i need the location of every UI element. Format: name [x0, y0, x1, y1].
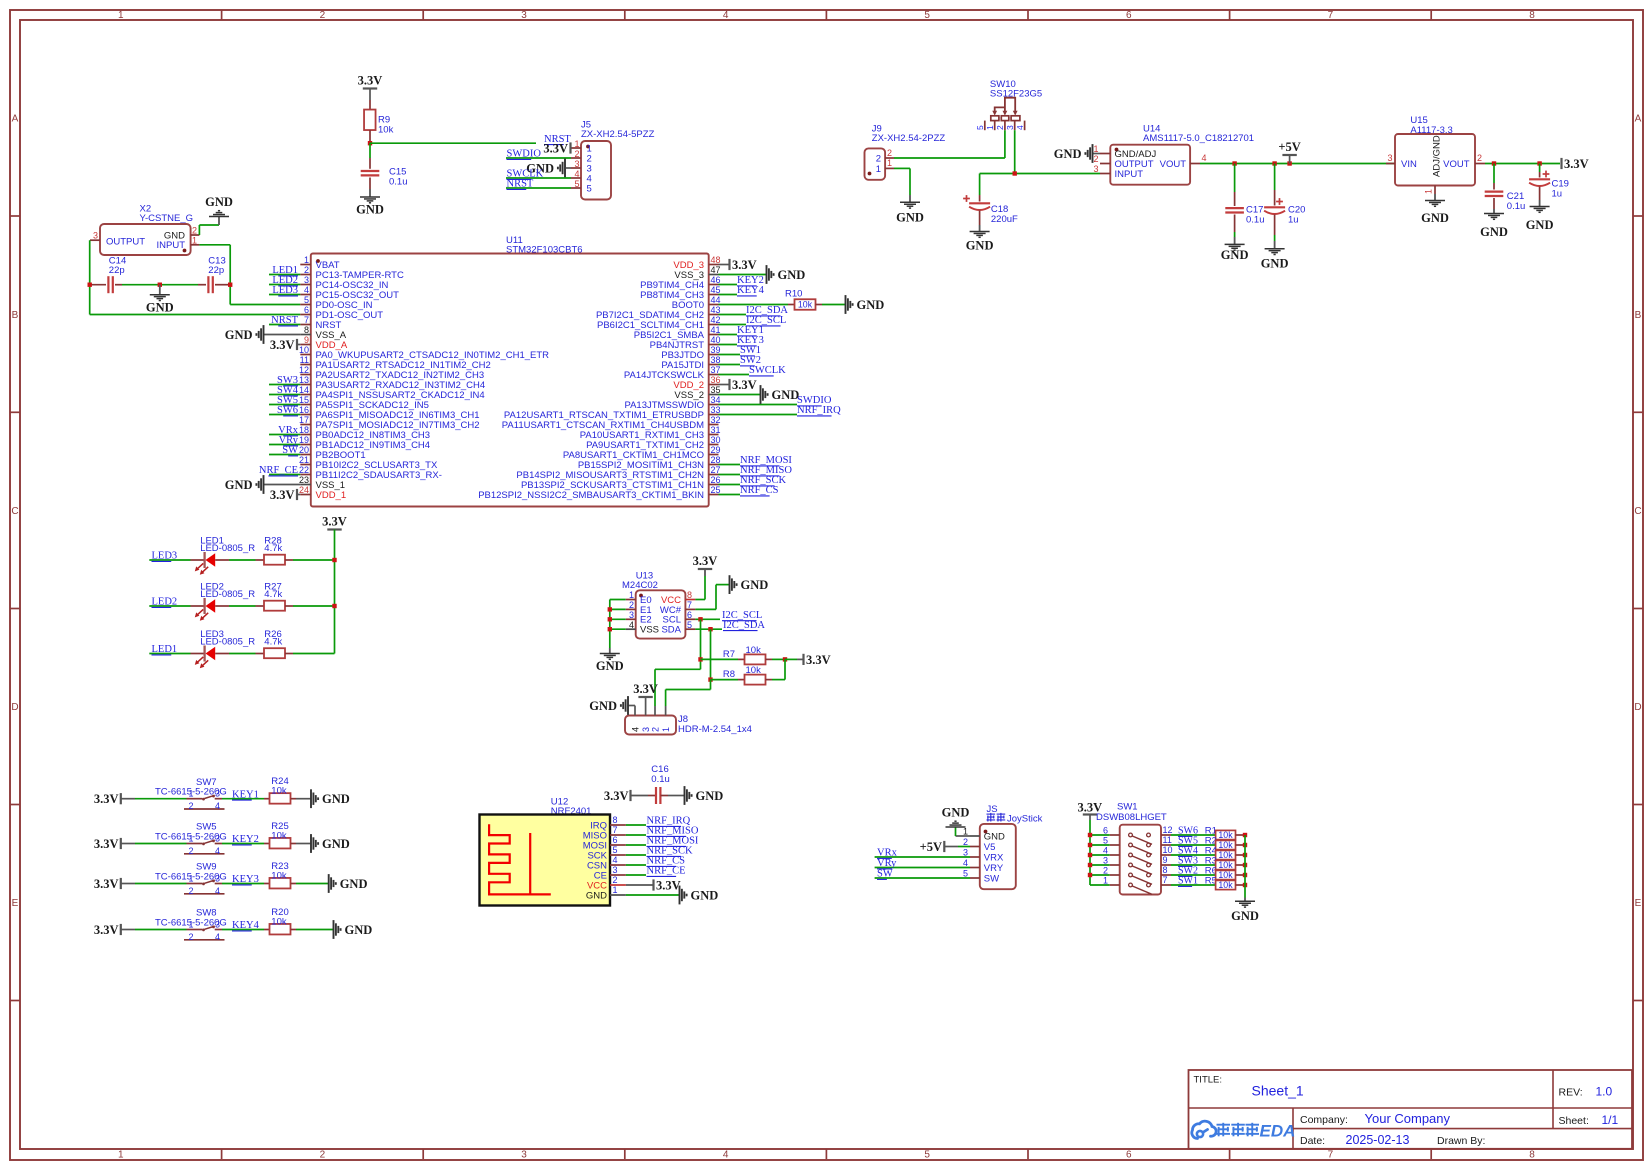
svg-text:GND: GND [356, 203, 384, 217]
svg-text:VRx: VRx [877, 848, 898, 859]
svg-text:4: 4 [629, 620, 634, 630]
svg-text:2025-02-13: 2025-02-13 [1346, 1133, 1410, 1147]
svg-text:PB12SPI2_NSSI2C2_SMBAUSART3_CK: PB12SPI2_NSSI2C2_SMBAUSART3_CKTIM1_BKIN [478, 490, 704, 501]
svg-text:JoyStick: JoyStick [1007, 814, 1043, 825]
svg-text:3: 3 [304, 275, 309, 285]
svg-text:A: A [1635, 114, 1642, 125]
svg-text:Your Company: Your Company [1365, 1111, 1451, 1126]
svg-text:1: 1 [985, 125, 995, 130]
svg-text:3: 3 [1005, 125, 1015, 130]
svg-text:4: 4 [613, 855, 618, 865]
svg-text:10k: 10k [746, 665, 762, 676]
svg-text:5: 5 [587, 183, 592, 194]
svg-text:R7: R7 [723, 649, 735, 660]
svg-text:4: 4 [723, 1150, 729, 1161]
svg-text:5: 5 [304, 295, 309, 305]
svg-text:SDA: SDA [661, 625, 681, 636]
svg-text:SW: SW [282, 445, 298, 456]
svg-text:3.3V: 3.3V [604, 789, 629, 803]
svg-text:19: 19 [299, 435, 309, 445]
svg-text:1: 1 [118, 1150, 124, 1161]
svg-text:GND: GND [778, 268, 806, 282]
svg-text:GND: GND [942, 806, 970, 820]
svg-text:22p: 22p [208, 265, 224, 276]
svg-text:Drawn By:: Drawn By: [1437, 1135, 1485, 1147]
svg-text:1.0: 1.0 [1596, 1085, 1613, 1099]
svg-text:SW: SW [877, 869, 893, 880]
svg-text:Y-CSTNE_G: Y-CSTNE_G [140, 213, 194, 224]
svg-text:VOUT: VOUT [1160, 159, 1187, 170]
svg-text:GND: GND [1221, 248, 1249, 262]
svg-text:10k: 10k [1218, 860, 1233, 870]
svg-text:5: 5 [613, 845, 618, 855]
svg-text:1u: 1u [1552, 189, 1563, 200]
svg-text:GND: GND [1054, 147, 1082, 161]
svg-text:2: 2 [995, 125, 1005, 130]
svg-text:ADJ/GND: ADJ/GND [1432, 135, 1443, 177]
svg-text:GND: GND [1526, 218, 1554, 232]
svg-text:1: 1 [876, 164, 881, 175]
svg-text:11: 11 [1163, 835, 1172, 845]
svg-text:10k: 10k [798, 300, 813, 310]
svg-text:3.3V: 3.3V [633, 682, 658, 696]
svg-text:10k: 10k [378, 125, 394, 136]
svg-text:GND: GND [596, 659, 624, 673]
svg-text:10k: 10k [1218, 870, 1233, 880]
svg-text:2: 2 [629, 600, 634, 610]
svg-text:JS: JS [987, 804, 998, 815]
svg-text:0.1u: 0.1u [389, 177, 408, 188]
svg-text:3: 3 [613, 865, 618, 875]
svg-text:4: 4 [574, 169, 579, 179]
svg-text:6: 6 [1103, 826, 1108, 836]
svg-text:3.3V: 3.3V [94, 923, 119, 937]
svg-text:3: 3 [521, 1150, 527, 1161]
svg-text:3: 3 [629, 610, 634, 620]
svg-text:3: 3 [574, 159, 579, 169]
svg-text:GND: GND [966, 239, 994, 253]
svg-text:7: 7 [613, 825, 618, 835]
svg-text:9: 9 [1163, 855, 1168, 865]
svg-text:30: 30 [711, 435, 721, 445]
svg-text:10: 10 [1163, 845, 1173, 855]
svg-text:8: 8 [1529, 1150, 1535, 1161]
svg-text:15: 15 [299, 395, 309, 405]
svg-text:3.3V: 3.3V [94, 837, 119, 851]
svg-text:14: 14 [299, 385, 309, 395]
svg-text:NRF_CE: NRF_CE [647, 866, 686, 877]
svg-text:4: 4 [963, 858, 968, 868]
svg-text:SW1: SW1 [1178, 876, 1198, 887]
svg-text:10k: 10k [271, 831, 287, 842]
svg-text:1: 1 [574, 139, 579, 149]
svg-text:2: 2 [574, 149, 579, 159]
svg-text:KEY1: KEY1 [232, 789, 259, 800]
svg-text:+5V: +5V [1278, 140, 1300, 154]
svg-text:4: 4 [304, 285, 309, 295]
svg-text:SW1: SW1 [1117, 802, 1138, 813]
svg-text:A: A [12, 114, 19, 125]
svg-text:4: 4 [215, 886, 220, 896]
svg-text:GND: GND [586, 890, 607, 901]
svg-text:23: 23 [299, 475, 309, 485]
svg-text:NRF_CE: NRF_CE [259, 465, 298, 476]
svg-text:1: 1 [1424, 189, 1434, 194]
svg-text:DSWB08LHGET: DSWB08LHGET [1096, 812, 1167, 823]
svg-text:SWDIO: SWDIO [507, 149, 542, 160]
svg-text:D: D [1634, 702, 1641, 713]
svg-text:24: 24 [299, 485, 309, 495]
svg-text:GND: GND [345, 923, 373, 937]
svg-text:NRF_CS: NRF_CS [740, 485, 779, 496]
svg-text:KEY4: KEY4 [232, 920, 260, 931]
svg-text:3.3V: 3.3V [732, 258, 757, 272]
svg-text:2: 2 [887, 148, 892, 158]
svg-text:GND: GND [225, 328, 253, 342]
svg-text:2: 2 [192, 226, 197, 236]
svg-text:GND: GND [1421, 211, 1449, 225]
svg-text:+5V: +5V [920, 840, 942, 854]
svg-text:5: 5 [1103, 836, 1108, 846]
svg-text:VRX: VRX [984, 852, 1004, 863]
svg-text:31: 31 [711, 425, 721, 435]
svg-text:6: 6 [1126, 1150, 1132, 1161]
svg-text:4: 4 [215, 932, 220, 942]
svg-text:TC-6615-5-260G: TC-6615-5-260G [155, 787, 227, 798]
svg-text:Company:: Company: [1300, 1114, 1348, 1126]
svg-text:SW: SW [984, 873, 999, 884]
svg-text:GND: GND [857, 298, 885, 312]
svg-text:10k: 10k [271, 871, 287, 882]
svg-text:GND: GND [205, 195, 233, 209]
svg-text:GND: GND [589, 699, 617, 713]
svg-text:0.1u: 0.1u [651, 774, 670, 785]
svg-text:2: 2 [320, 10, 326, 21]
svg-text:2: 2 [1477, 153, 1482, 163]
svg-text:3: 3 [1387, 153, 1392, 163]
svg-text:R10: R10 [785, 288, 802, 299]
svg-text:KEY3: KEY3 [232, 874, 259, 885]
svg-text:29: 29 [711, 445, 721, 455]
svg-text:VSS: VSS [640, 625, 659, 636]
svg-text:3: 3 [1093, 164, 1098, 174]
svg-text:12: 12 [1163, 825, 1173, 835]
svg-text:AMS1117-5.0_C18212701: AMS1117-5.0_C18212701 [1143, 133, 1254, 144]
svg-text:1u: 1u [1288, 215, 1299, 226]
svg-text:4.7k: 4.7k [264, 637, 282, 648]
svg-text:2: 2 [188, 801, 193, 811]
svg-text:GND: GND [322, 837, 350, 851]
svg-text:3: 3 [1103, 856, 1108, 866]
svg-text:KEY2: KEY2 [232, 834, 259, 845]
svg-text:21: 21 [299, 455, 309, 465]
svg-text:3: 3 [963, 848, 968, 858]
svg-text:1: 1 [1103, 876, 1108, 886]
svg-text:0.1u: 0.1u [1507, 201, 1526, 212]
svg-text:3.3V: 3.3V [806, 653, 831, 667]
svg-text:220uF: 220uF [991, 214, 1018, 225]
svg-text:VRy: VRy [877, 858, 897, 869]
svg-text:17: 17 [299, 415, 309, 425]
svg-text:KEY4: KEY4 [737, 285, 765, 296]
svg-text:1: 1 [304, 255, 309, 265]
svg-text:8: 8 [304, 325, 309, 335]
svg-text:3: 3 [521, 10, 527, 21]
svg-text:3.3V: 3.3V [270, 338, 295, 352]
svg-text:D: D [11, 702, 18, 713]
svg-text:5: 5 [924, 10, 930, 21]
svg-text:3: 3 [93, 230, 98, 240]
svg-text:GND: GND [984, 831, 1005, 842]
svg-text:LED-0805_R: LED-0805_R [200, 637, 255, 648]
svg-text:2: 2 [650, 727, 660, 732]
svg-text:GND: GND [1231, 909, 1259, 923]
svg-text:TITLE:: TITLE: [1194, 1075, 1223, 1086]
svg-text:Sheet_1: Sheet_1 [1252, 1083, 1304, 1099]
svg-text:10k: 10k [271, 786, 287, 797]
svg-text:6: 6 [1126, 10, 1132, 21]
svg-text:SWCLK: SWCLK [749, 365, 786, 376]
svg-text:1: 1 [629, 590, 634, 600]
svg-text:HDR-M-2.54_1x4: HDR-M-2.54_1x4 [678, 724, 752, 735]
svg-text:20: 20 [299, 445, 309, 455]
svg-text:VRY: VRY [984, 863, 1004, 874]
svg-text:REV:: REV: [1559, 1087, 1583, 1099]
svg-text:7: 7 [687, 600, 692, 610]
svg-text:8: 8 [613, 815, 618, 825]
svg-text:4: 4 [723, 10, 729, 21]
svg-text:I2C_SDA: I2C_SDA [723, 620, 765, 631]
svg-text:TC-6615-5-260G: TC-6615-5-260G [155, 872, 227, 883]
svg-text:8: 8 [1163, 865, 1168, 875]
svg-text:Date:: Date: [1300, 1135, 1325, 1147]
svg-text:2: 2 [963, 837, 968, 847]
svg-text:8: 8 [1529, 10, 1535, 21]
svg-text:5: 5 [963, 869, 968, 879]
svg-text:2: 2 [1093, 154, 1098, 164]
svg-text:3.3V: 3.3V [322, 515, 347, 529]
svg-text:16: 16 [299, 405, 309, 415]
svg-text:ZX-XH2.54-5PZZ: ZX-XH2.54-5PZZ [581, 129, 655, 140]
svg-text:5: 5 [924, 1150, 930, 1161]
svg-text:3.3V: 3.3V [693, 554, 718, 568]
svg-text:22: 22 [299, 465, 309, 475]
svg-text:GND: GND [322, 792, 350, 806]
svg-text:7: 7 [1328, 1150, 1334, 1161]
svg-text:OUTPUT: OUTPUT [106, 237, 145, 248]
svg-text:LED2: LED2 [152, 597, 178, 608]
svg-text:3.3V: 3.3V [94, 792, 119, 806]
svg-text:GND: GND [696, 789, 724, 803]
svg-text:7: 7 [1163, 875, 1168, 885]
svg-text:2: 2 [188, 886, 193, 896]
svg-text:LED-0805_R: LED-0805_R [200, 589, 255, 600]
svg-text:V5: V5 [984, 842, 996, 853]
svg-text:EDA: EDA [1260, 1121, 1296, 1140]
svg-text:1: 1 [613, 885, 618, 895]
svg-text:1: 1 [661, 727, 671, 732]
svg-text:ZX-XH2.54-2PZZ: ZX-XH2.54-2PZZ [872, 133, 946, 144]
svg-text:0.1u: 0.1u [1246, 215, 1265, 226]
svg-text:1: 1 [887, 158, 892, 168]
svg-text:2: 2 [188, 932, 193, 942]
svg-text:18: 18 [299, 425, 309, 435]
svg-text:5: 5 [687, 620, 692, 630]
svg-text:Sheet:: Sheet: [1559, 1115, 1589, 1127]
svg-text:LED-0805_R: LED-0805_R [200, 543, 255, 554]
svg-text:10k: 10k [1218, 830, 1233, 840]
svg-text:TC-6615-5-260G: TC-6615-5-260G [155, 918, 227, 929]
svg-text:GND: GND [1480, 225, 1508, 239]
svg-text:2: 2 [1103, 866, 1108, 876]
svg-text:1: 1 [118, 10, 124, 21]
svg-text:2: 2 [613, 875, 618, 885]
svg-text:GND: GND [772, 388, 800, 402]
svg-text:10k: 10k [1218, 850, 1233, 860]
svg-text:LED3: LED3 [272, 285, 298, 296]
svg-text:C: C [11, 506, 18, 517]
svg-text:1: 1 [963, 827, 968, 837]
svg-text:2: 2 [188, 846, 193, 856]
svg-text:VOUT: VOUT [1443, 159, 1470, 170]
svg-text:3.3V: 3.3V [656, 878, 681, 892]
svg-text:4: 4 [1103, 846, 1108, 856]
svg-text:VIN: VIN [1401, 159, 1417, 170]
svg-text:E: E [12, 898, 19, 909]
svg-text:7: 7 [304, 315, 309, 325]
svg-text:GND: GND [340, 877, 368, 891]
svg-text:3.3V: 3.3V [543, 141, 568, 155]
svg-text:E: E [1635, 898, 1642, 909]
svg-text:C: C [1634, 506, 1641, 517]
svg-text:3.3V: 3.3V [270, 488, 295, 502]
svg-text:NRF_IRQ: NRF_IRQ [797, 405, 841, 416]
svg-text:22p: 22p [109, 265, 125, 276]
svg-text:GND: GND [896, 211, 924, 225]
svg-text:GND: GND [741, 578, 769, 592]
svg-text:3.3V: 3.3V [1564, 157, 1589, 171]
svg-text:4: 4 [630, 727, 640, 732]
svg-text:11: 11 [300, 355, 309, 365]
svg-text:GND: GND [225, 478, 253, 492]
svg-text:R8: R8 [723, 669, 735, 680]
svg-text:3.3V: 3.3V [732, 378, 757, 392]
svg-text:12: 12 [299, 365, 309, 375]
svg-text:4: 4 [215, 846, 220, 856]
svg-text:1/1: 1/1 [1602, 1113, 1619, 1127]
svg-text:9: 9 [304, 335, 309, 345]
svg-text:LED3: LED3 [152, 551, 178, 562]
svg-text:2: 2 [304, 265, 309, 275]
svg-text:B: B [1635, 310, 1642, 321]
svg-text:3.3V: 3.3V [358, 74, 383, 88]
svg-text:7: 7 [1328, 10, 1334, 21]
svg-text:LED1: LED1 [152, 644, 178, 655]
svg-text:GND: GND [146, 300, 174, 314]
svg-text:5: 5 [975, 125, 985, 130]
svg-text:NRST: NRST [507, 179, 534, 190]
svg-text:10k: 10k [1218, 880, 1233, 890]
svg-text:8: 8 [687, 590, 692, 600]
svg-text:13: 13 [299, 375, 309, 385]
svg-text:4: 4 [1202, 153, 1207, 163]
svg-text:6: 6 [304, 305, 309, 315]
svg-text:TC-6615-5-260G: TC-6615-5-260G [155, 832, 227, 843]
svg-text:VDD_1: VDD_1 [316, 490, 347, 501]
svg-text:4: 4 [215, 801, 220, 811]
svg-text:3.3V: 3.3V [94, 877, 119, 891]
svg-text:GND: GND [1261, 257, 1289, 271]
svg-text:NRST: NRST [271, 315, 298, 326]
svg-text:10k: 10k [1218, 840, 1233, 850]
svg-text:5: 5 [574, 179, 579, 189]
svg-text:6: 6 [613, 835, 618, 845]
svg-text:10: 10 [299, 345, 309, 355]
svg-text:32: 32 [711, 415, 721, 425]
svg-text:SW6: SW6 [277, 405, 298, 416]
svg-text:GND: GND [691, 888, 719, 902]
svg-text:B: B [12, 310, 19, 321]
svg-text:4: 4 [1015, 125, 1025, 130]
svg-text:2: 2 [876, 153, 881, 164]
svg-text:10k: 10k [271, 917, 287, 928]
svg-text:4.7k: 4.7k [264, 589, 282, 600]
svg-text:2: 2 [320, 1150, 326, 1161]
svg-text:4.7k: 4.7k [264, 543, 282, 554]
svg-text:10k: 10k [746, 645, 762, 656]
svg-text:INPUT: INPUT [1115, 169, 1144, 180]
svg-text:INPUT: INPUT [157, 240, 186, 251]
svg-text:6: 6 [687, 610, 692, 620]
